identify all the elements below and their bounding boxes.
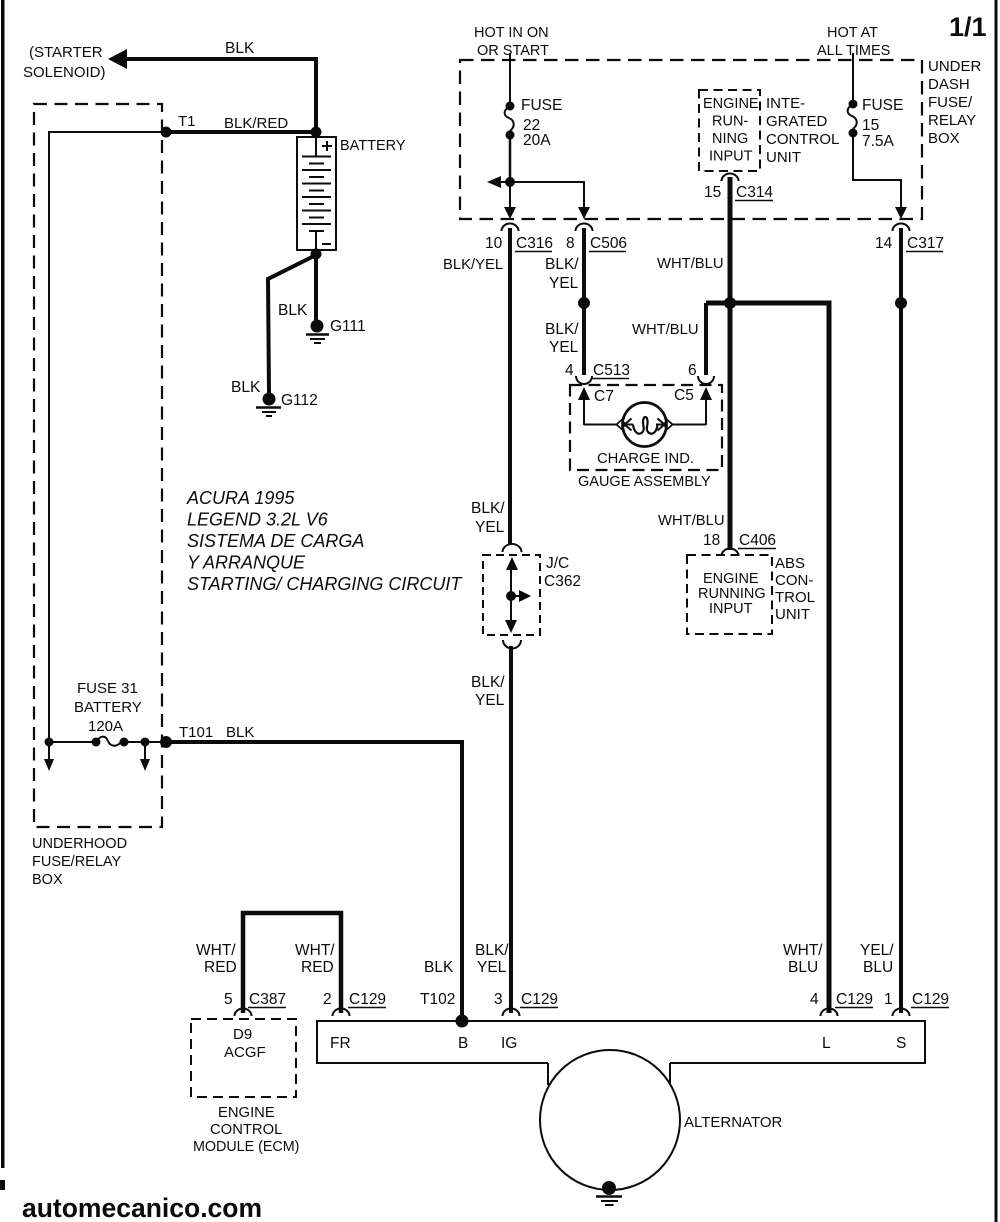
svg-text:C387: C387: [249, 991, 286, 1008]
svg-text:C5: C5: [674, 387, 694, 404]
svg-text:6: 6: [688, 362, 697, 379]
wire WHT/BLU from C314 down: [657, 177, 730, 303]
svg-text:FUSE: FUSE: [862, 97, 903, 114]
svg-text:UNIT: UNIT: [766, 149, 801, 166]
svg-text:BLU: BLU: [788, 959, 818, 976]
svg-text:BATTERY: BATTERY: [340, 138, 406, 154]
wire hot-at-all-times feed into fuse 15: [852, 53, 854, 104]
svg-text:INPUT: INPUT: [709, 601, 753, 617]
svg-text:UNIT: UNIT: [775, 606, 810, 623]
wire BLK battery negative to G111: [278, 254, 316, 320]
svg-text:C314: C314: [736, 184, 773, 201]
svg-text:BATTERY: BATTERY: [74, 699, 142, 716]
svg-text:ACGF: ACGF: [224, 1044, 266, 1061]
connector C129 pin 3: [494, 991, 558, 1016]
connector C506 pin 8: [566, 224, 627, 252]
svg-text:FUSE/RELAY: FUSE/RELAY: [32, 854, 122, 870]
wire WHT/BLU branch to gauge and alternator L: [632, 303, 829, 1013]
wire BLK to starter solenoid with left arrowhead: [108, 40, 316, 133]
svg-text:C129: C129: [521, 991, 558, 1008]
dashed box UNDER DASH FUSE/RELAY BOX outline: [460, 60, 922, 219]
svg-text:7.5A: 7.5A: [862, 133, 895, 150]
svg-text:IG: IG: [501, 1035, 517, 1052]
svg-text:RUN-: RUN-: [712, 114, 748, 130]
wire branch right and down to C506 with arrowhead: [510, 182, 590, 219]
svg-text:BLK: BLK: [226, 724, 254, 741]
node T102 label: [420, 991, 455, 1008]
junction connector J/C C362: [483, 544, 581, 649]
label BLK/YEL below J/C: [471, 674, 505, 709]
ground alternator case: [596, 1181, 622, 1205]
wire branch down to C316 with arrowhead: [504, 182, 516, 219]
svg-text:automecanico.com: automecanico.com: [22, 1193, 262, 1222]
svg-text:L: L: [822, 1035, 831, 1052]
svg-text:YEL: YEL: [549, 339, 579, 356]
node fuse31 right junction with down arrow: [140, 738, 150, 772]
svg-text:C317: C317: [907, 235, 944, 252]
svg-text:C506: C506: [590, 235, 627, 252]
label INTEGRATED CONTROL UNIT: [766, 95, 839, 166]
label ENGINE CONTROL MODULE (ECM): [193, 1105, 299, 1155]
svg-text:ENGINE: ENGINE: [218, 1105, 275, 1121]
svg-text:120A: 120A: [88, 718, 123, 735]
svg-text:WHT/: WHT/: [196, 942, 236, 959]
label BLK at T102: [424, 959, 454, 976]
svg-text:18: 18: [703, 532, 720, 549]
svg-text:YEL: YEL: [475, 519, 505, 536]
node WHT/BLU junction: [724, 297, 736, 309]
svg-text:ALTERNATOR: ALTERNATOR: [684, 1114, 783, 1131]
svg-text:RED: RED: [204, 959, 237, 976]
label UNDER DASH FUSE/RELAY BOX: [928, 58, 982, 147]
fuse F31 symbol: [49, 737, 166, 747]
svg-text:D9: D9: [233, 1026, 252, 1043]
svg-text:DASH: DASH: [928, 76, 970, 93]
node T101 junction: [160, 724, 213, 748]
svg-text:14: 14: [875, 235, 893, 252]
ground G111: [306, 318, 366, 343]
connector C387 pin 5: [224, 991, 286, 1016]
node splice on BLK/YEL wire: [545, 297, 590, 356]
svg-text:CONTROL: CONTROL: [766, 131, 839, 148]
svg-text:TROL: TROL: [775, 589, 815, 606]
page number 1/1: [949, 12, 987, 42]
svg-text:ENGINE: ENGINE: [703, 571, 759, 587]
wire BLK battery negative to G112: [231, 255, 316, 396]
connector C129 pin 4: [810, 991, 873, 1016]
svg-text:GAUGE ASSEMBLY: GAUGE ASSEMBLY: [578, 474, 711, 490]
node fuse31 left junction with down arrow: [44, 738, 54, 772]
svg-text:C316: C316: [516, 235, 553, 252]
svg-text:YEL: YEL: [475, 692, 505, 709]
wire BLK/RED from T1 to battery: [166, 115, 316, 132]
svg-text:5: 5: [224, 991, 233, 1008]
svg-text:CHARGE IND.: CHARGE IND.: [597, 451, 694, 467]
svg-text:BLK/YEL: BLK/YEL: [443, 257, 503, 273]
svg-text:STARTING/ CHARGING CIRCUIT: STARTING/ CHARGING CIRCUIT: [187, 574, 463, 594]
svg-text:YEL/: YEL/: [860, 942, 894, 959]
svg-text:T101: T101: [179, 724, 213, 741]
svg-text:YEL: YEL: [477, 959, 507, 976]
svg-text:FUSE/: FUSE/: [928, 94, 973, 111]
svg-text:RELAY: RELAY: [928, 112, 976, 129]
connector C314 pin 15: [704, 174, 773, 201]
svg-text:4: 4: [565, 362, 574, 379]
wire WHT/RED hairpin from C387 to C129 pin 2: [243, 913, 341, 1013]
svg-text:BLK: BLK: [278, 302, 308, 319]
svg-text:CONTROL: CONTROL: [210, 1122, 282, 1138]
svg-text:SISTEMA DE CARGA: SISTEMA DE CARGA: [187, 531, 364, 551]
wire branch with left arrowhead: [487, 176, 510, 188]
svg-text:BLK/: BLK/: [475, 942, 509, 959]
svg-text:BLK/: BLK/: [545, 321, 579, 338]
wire BLK/YEL from C506 down to C513 pin 4: [545, 228, 584, 375]
svg-text:B: B: [458, 1035, 468, 1052]
alternator box outline: [317, 1021, 925, 1085]
dashed box ENGINE RUNNING INPUT (ICU): [699, 90, 760, 171]
svg-text:WHT/: WHT/: [295, 942, 335, 959]
connector C129 pin 2: [323, 991, 386, 1016]
label BATTERY: [340, 138, 406, 154]
alternator body circle: [540, 1050, 783, 1190]
fuse F15 7.5A: [848, 97, 904, 150]
label YEL/BLU at pin 1: [860, 942, 894, 976]
dashed box UNDERHOOD FUSE/RELAY BOX outline: [34, 104, 162, 827]
svg-text:BLK/: BLK/: [471, 500, 505, 517]
wire YEL/BLU from C317 down to alternator S: [899, 228, 903, 1013]
label BLK/YEL above J/C: [471, 500, 505, 536]
connector C317 pin 14: [875, 224, 944, 252]
wire fuse22 to junction: [509, 135, 512, 182]
svg-text:G111: G111: [330, 318, 366, 335]
node HOT IN ON OR START label: [474, 25, 549, 59]
wire WHT/BLU down to C406: [658, 303, 730, 550]
node splice on YEL/BLU wire: [895, 297, 907, 309]
connector C129 pin 1: [884, 991, 949, 1016]
node battery positive junction: [311, 127, 322, 138]
label CHARGE IND.: [597, 451, 694, 467]
svg-text:1: 1: [884, 991, 893, 1008]
svg-text:20A: 20A: [523, 132, 551, 149]
svg-text:3: 3: [494, 991, 503, 1008]
connector C406 pin 18: [703, 532, 776, 556]
label WHT/RED left: [196, 942, 237, 976]
node (STARTER SOLENOID) label: [23, 44, 106, 81]
svg-text:BLK: BLK: [231, 379, 261, 396]
svg-text:1/1: 1/1: [949, 12, 987, 42]
connector C316 pin 10: [485, 224, 553, 252]
svg-text:BOX: BOX: [32, 872, 63, 888]
svg-text:INTE-: INTE-: [766, 95, 805, 112]
svg-text:15: 15: [862, 117, 879, 134]
svg-text:C7: C7: [594, 388, 614, 405]
label WHT/BLU at pin 4: [783, 942, 823, 976]
svg-text:C406: C406: [739, 532, 776, 549]
svg-text:G112: G112: [281, 392, 318, 409]
svg-text:WHT/BLU: WHT/BLU: [657, 256, 724, 272]
label WHT/RED right: [295, 942, 335, 976]
node T1 junction: [161, 113, 196, 138]
svg-text:(STARTER: (STARTER: [29, 44, 103, 61]
svg-text:BLK: BLK: [225, 40, 255, 57]
svg-text:WHT/: WHT/: [783, 942, 823, 959]
title text block: [186, 488, 463, 594]
battery symbol: [297, 137, 336, 250]
label GAUGE ASSEMBLY: [578, 474, 711, 490]
wire thin from fuse31 up to T1: [49, 132, 165, 742]
svg-text:C129: C129: [349, 991, 386, 1008]
wire BLK/YEL from C316 down to J/C C362: [443, 228, 510, 544]
label ABS CONTROL UNIT: [775, 555, 815, 623]
svg-text:ENGINE: ENGINE: [703, 96, 759, 112]
node fuse22 branch junction: [505, 177, 515, 187]
svg-text:MODULE (ECM): MODULE (ECM): [193, 1139, 299, 1155]
svg-text:ACURA 1995: ACURA 1995: [186, 488, 295, 508]
svg-text:BLK/RED: BLK/RED: [224, 115, 288, 132]
label UNDERHOOD FUSE/RELAY BOX: [32, 836, 127, 888]
svg-text:C129: C129: [836, 991, 873, 1008]
svg-text:GRATED: GRATED: [766, 113, 828, 130]
dashed box ENGINE RUNNING INPUT (ABS): [687, 555, 772, 634]
svg-text:15: 15: [704, 184, 721, 201]
fuse F31 label: [74, 680, 142, 735]
svg-text:4: 4: [810, 991, 819, 1008]
wire BLK from T101 to alternator B terminal: [166, 724, 462, 1021]
svg-text:YEL: YEL: [549, 275, 579, 292]
dashed box D9 ACGF (ECM pin): [191, 1019, 296, 1097]
svg-text:FUSE: FUSE: [521, 97, 562, 114]
svg-text:Y ARRANQUE: Y ARRANQUE: [187, 553, 306, 573]
node B terminal junction: [456, 1015, 469, 1028]
wire fuse15 to C317 with arrowhead: [853, 133, 907, 219]
svg-text:S: S: [896, 1035, 906, 1052]
svg-text:NING: NING: [712, 131, 748, 147]
pin C7 arrow into gauge: [578, 387, 614, 425]
svg-text:T1: T1: [178, 113, 196, 130]
page left border line: [0, 0, 5, 1190]
svg-text:BLK: BLK: [424, 959, 454, 976]
svg-text:OR START: OR START: [477, 43, 549, 59]
svg-text:CON-: CON-: [775, 572, 813, 589]
alternator terminal labels: [330, 1035, 906, 1052]
svg-text:C513: C513: [593, 362, 630, 379]
dashed box GAUGE ASSEMBLY outline: [570, 385, 722, 470]
svg-text:HOT IN ON: HOT IN ON: [474, 25, 549, 41]
svg-text:UNDER: UNDER: [928, 58, 982, 75]
svg-text:RED: RED: [301, 959, 334, 976]
svg-text:C362: C362: [544, 573, 581, 590]
wire BLK/YEL from J/C down to alternator IG: [509, 646, 513, 1013]
svg-text:INPUT: INPUT: [709, 149, 753, 165]
svg-text:RUNNING: RUNNING: [698, 586, 766, 602]
svg-text:2: 2: [323, 991, 332, 1008]
svg-text:UNDERHOOD: UNDERHOOD: [32, 836, 127, 852]
svg-text:WHT/BLU: WHT/BLU: [632, 322, 699, 338]
svg-text:HOT AT: HOT AT: [827, 25, 878, 41]
page right border line: [995, 0, 998, 1222]
svg-text:T102: T102: [420, 991, 455, 1008]
label BLK/YEL at pin 3: [475, 942, 509, 976]
svg-text:LEGEND 3.2L V6: LEGEND 3.2L V6: [187, 510, 329, 530]
wire hot-in-on feed into fuse 22: [509, 53, 511, 106]
svg-text:BLK/: BLK/: [545, 256, 579, 273]
lamp charge indicator: [584, 403, 706, 447]
svg-text:BOX: BOX: [928, 130, 960, 147]
svg-text:BLK/: BLK/: [471, 674, 505, 691]
svg-text:SOLENOID): SOLENOID): [23, 64, 106, 81]
svg-text:10: 10: [485, 235, 503, 252]
watermark automecanico.com: [22, 1193, 262, 1222]
svg-text:FR: FR: [330, 1035, 351, 1052]
svg-text:FUSE 31: FUSE 31: [77, 680, 138, 697]
svg-text:BLU: BLU: [863, 959, 893, 976]
node battery negative junction: [311, 249, 322, 260]
fuse F22 20A: [505, 97, 563, 149]
svg-text:8: 8: [566, 235, 575, 252]
svg-text:ABS: ABS: [775, 555, 805, 572]
ground G112: [256, 392, 318, 416]
svg-text:WHT/BLU: WHT/BLU: [658, 513, 725, 529]
svg-text:J/C: J/C: [546, 555, 569, 572]
connector C513 pins 4 and 6: [565, 362, 714, 384]
svg-text:C129: C129: [912, 991, 949, 1008]
pin C5 arrow into gauge: [674, 387, 712, 425]
node HOT AT ALL TIMES label: [817, 25, 890, 59]
